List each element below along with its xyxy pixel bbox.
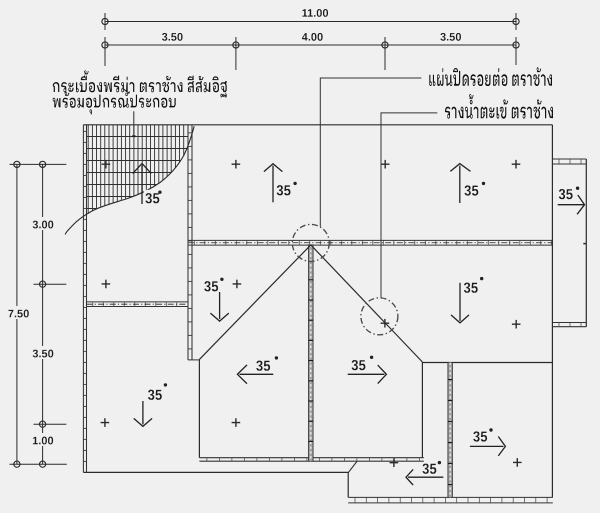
left wing right band xyxy=(188,125,199,360)
slope arrow down, centre-left panel xyxy=(204,278,228,322)
right-centre panel bottom edge xyxy=(422,362,552,364)
slope arrow right, bottom-right block xyxy=(470,428,506,456)
slope arrow up, top-left panel xyxy=(264,164,297,203)
grid plus marks xyxy=(101,160,522,467)
roof top edge xyxy=(83,124,552,126)
note: tile brand text xyxy=(53,71,227,115)
dimension line 3.50 / 4.00 / 3.50 xyxy=(102,33,519,70)
detail circle at ridge apex xyxy=(292,224,329,261)
centre vertical ridge cap xyxy=(309,245,314,461)
main ridge band xyxy=(188,240,553,245)
slope arrow up, top-right panel xyxy=(450,164,485,203)
centre block left edge xyxy=(198,359,200,457)
leader to valley gutter xyxy=(381,113,437,298)
right wing bottom band xyxy=(552,323,586,327)
detail circle on valley xyxy=(361,298,398,335)
slope arrow right, side wing xyxy=(558,187,585,215)
left valley diagonal xyxy=(199,245,310,360)
centre eave band xyxy=(199,458,423,462)
note: valley gutter text xyxy=(445,94,553,119)
slope arrow left, centre-bottom panel xyxy=(237,356,278,384)
tile break curve xyxy=(65,126,194,234)
left dimension lines 3.00 / 7.50 / 3.50 / 1.00 xyxy=(4,161,67,467)
slope arrow left, bottom-centre block xyxy=(406,461,443,485)
slope arrow up, hatched wing xyxy=(133,164,164,205)
centre block right edge xyxy=(421,362,423,458)
slope arrow right, centre-bottom panel xyxy=(348,356,387,384)
leader to ridge joint cover xyxy=(320,78,421,227)
bottom-right eave band xyxy=(348,497,553,503)
main right edge xyxy=(551,125,553,498)
note: ridge joint cover text xyxy=(429,67,552,86)
bottom-left fascia xyxy=(83,461,357,497)
left wing divider band xyxy=(87,302,189,307)
right wing right edge xyxy=(583,159,586,327)
left eave band xyxy=(83,125,86,473)
leader from tile note xyxy=(132,111,135,137)
hatched tile area xyxy=(87,125,189,230)
right valley diagonal xyxy=(311,245,423,362)
slope arrow down, left wing xyxy=(134,383,167,426)
right wing top band xyxy=(552,159,586,164)
dimension line 11.00 xyxy=(102,9,519,30)
slope arrow down, centre-right panel xyxy=(451,277,483,323)
bottom-right vertical ridge cap xyxy=(448,363,453,498)
